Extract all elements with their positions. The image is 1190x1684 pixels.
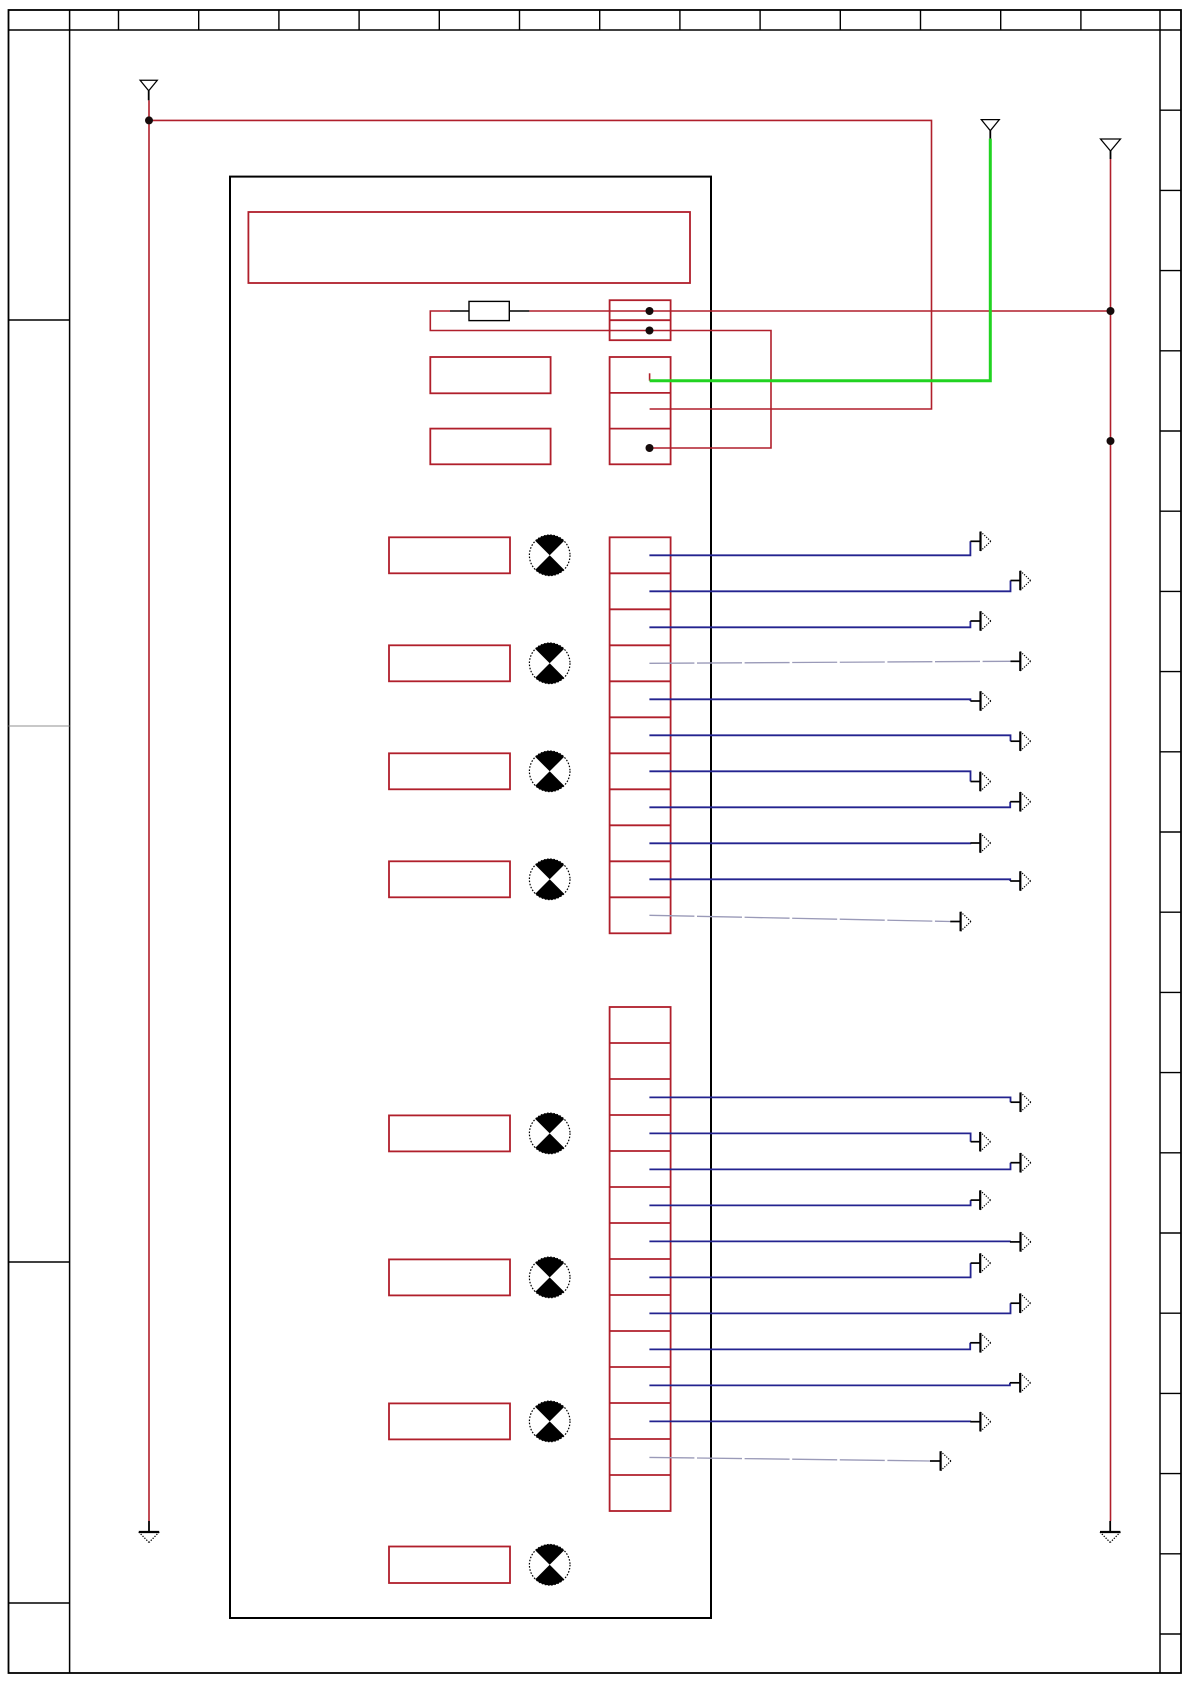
left column cell line 2 — [9, 1261, 70, 1263]
junction TB2 pin 3 — [646, 444, 654, 452]
sheet reference arrow for wire X1:3 to sheet ref — [970, 611, 990, 630]
wire X2:5 to sheet ref — [649, 1163, 1010, 1170]
sink symbol E (right riser end) — [1100, 1521, 1120, 1543]
sheet reference arrow for wire X2:5 to sheet ref — [1011, 1153, 1031, 1172]
top zone strip dividers — [119, 10, 1081, 30]
indicator lamp H1 — [529, 535, 570, 576]
device box M2 — [389, 645, 510, 681]
wire X1:5 to sheet ref — [649, 699, 970, 701]
wire X2:9 to sheet ref — [649, 1303, 1010, 1313]
terminal block TB1 — [610, 300, 671, 340]
wire X2:3 to sheet ref — [649, 1097, 1010, 1102]
sheet reference arrow for wire X1:2 to sheet ref — [1011, 571, 1031, 590]
wire resistor output — [529, 310, 1110, 312]
terminal block TB2 — [610, 357, 671, 464]
indicator lamp H5 — [529, 1113, 570, 1154]
indicator lamp H3 — [529, 751, 570, 792]
indicator lamp H7 — [529, 1401, 570, 1442]
sheet reference arrow for wire X1:8 to sheet ref — [1010, 792, 1030, 811]
right zone tick column — [1159, 10, 1161, 1673]
right zone tick marks — [1160, 110, 1181, 1634]
indicator lamp H6 — [529, 1257, 570, 1298]
wire X1:6 to sheet ref — [649, 735, 1010, 741]
wire green stub — [649, 373, 651, 380]
junction right riser / resistor wire — [1107, 307, 1115, 315]
sheet reference arrow for wire X1:6 to sheet ref — [1011, 732, 1031, 751]
wire X2:12 to sheet ref — [649, 1420, 970, 1422]
wire X1:11 to sheet ref — [649, 915, 950, 921]
sheet reference arrow for wire X2:9 to sheet ref — [1011, 1294, 1031, 1313]
device box M7 — [389, 1403, 510, 1439]
wire X2:10 to sheet ref — [649, 1343, 970, 1350]
sheet reference arrow for wire X2:7 to sheet ref — [1010, 1232, 1031, 1251]
wire X2:4 to sheet ref — [649, 1133, 970, 1141]
junction TB1 pin 2 — [646, 327, 654, 335]
panel enclosure box — [230, 177, 711, 1618]
sheet reference arrow for wire X1:10 to sheet ref — [1010, 871, 1030, 890]
resistor R — [469, 301, 509, 320]
sheet reference arrow for wire X1:7 to sheet ref — [971, 772, 991, 791]
wire right riser — [1110, 159, 1112, 1521]
sink symbol D (left riser end) — [139, 1521, 159, 1543]
device box M4 — [389, 861, 510, 897]
wire L+ top bus — [149, 120, 932, 409]
wire X1:2 to sheet ref — [649, 581, 1010, 592]
terminal strip X1 (11 poles) — [610, 537, 671, 933]
sheet reference arrow for wire X1:5 to sheet ref — [970, 691, 990, 710]
indicator lamp H4 — [529, 859, 570, 900]
wire PE green — [650, 139, 991, 381]
wire X1:3 to sheet ref — [649, 621, 970, 627]
junction left riser / top bus — [145, 116, 153, 124]
resistor left lead — [450, 310, 469, 312]
sheet reference arrow for wire X2:13 to sheet ref — [930, 1451, 951, 1470]
sheet reference arrow for wire X1:9 to sheet ref — [970, 833, 990, 852]
wire resistor return — [430, 311, 771, 448]
wire X1:1 to sheet ref — [649, 541, 970, 555]
source symbol C (right riser feed) — [1101, 139, 1121, 159]
source symbol B (PE feed) — [981, 120, 999, 139]
wire X1:8 to sheet ref — [649, 802, 1010, 808]
device box M1 — [389, 537, 510, 573]
junction right riser tap — [1107, 437, 1115, 445]
resistor right lead — [509, 310, 529, 312]
junction TB1 pin 1 — [646, 307, 654, 315]
left title column divider — [69, 10, 71, 1673]
device box M5 — [389, 1115, 510, 1151]
device box M3 — [389, 753, 510, 789]
wire X2:8 to sheet ref — [649, 1263, 970, 1277]
left column cell line 3 — [9, 1602, 70, 1604]
device box M8 — [389, 1547, 510, 1584]
indicator lamp H8 — [529, 1544, 570, 1585]
wire X2:6 to sheet ref — [649, 1200, 970, 1205]
wire X2:7 to sheet ref — [649, 1240, 1010, 1243]
wire X1:10 to sheet ref — [649, 879, 1010, 881]
sheet reference arrow for wire X2:10 to sheet ref — [970, 1333, 991, 1352]
top zone strip line — [9, 29, 1182, 31]
source symbol A (left riser feed) — [140, 80, 157, 100]
wire X2:11 to sheet ref — [649, 1383, 1010, 1386]
sheet reference arrow for wire X2:3 to sheet ref — [1011, 1093, 1031, 1112]
sheet reference arrow for wire X1:11 to sheet ref — [950, 912, 971, 931]
wire X1:9 to sheet ref — [649, 842, 970, 844]
sheet reference arrow for wire X2:8 to sheet ref — [971, 1253, 991, 1272]
terminal strip X2 (14 poles) — [610, 1007, 671, 1511]
wire X2:13 to sheet ref — [649, 1457, 930, 1461]
sheet reference arrow for wire X1:4 to sheet ref — [1011, 652, 1031, 671]
device box M6 — [389, 1259, 510, 1295]
wire X1:7 to sheet ref — [649, 771, 970, 781]
wire left riser — [148, 100, 150, 1521]
label box (panel title) — [248, 212, 690, 283]
device box K1 — [430, 357, 550, 393]
sheet reference arrow for wire X2:4 to sheet ref — [971, 1132, 991, 1151]
sheet reference arrow for wire X2:11 to sheet ref — [1010, 1373, 1031, 1392]
left column faint cell line — [9, 725, 70, 727]
left column cell line 1 — [9, 319, 70, 321]
sheet reference arrow for wire X1:1 to sheet ref — [970, 532, 990, 551]
sheet reference arrow for wire X2:6 to sheet ref — [971, 1190, 991, 1209]
wire X1:4 to sheet ref — [649, 661, 1010, 663]
sheet reference arrow for wire X2:12 to sheet ref — [970, 1412, 991, 1431]
indicator lamp H2 — [529, 643, 570, 684]
device box K2 — [430, 429, 550, 465]
